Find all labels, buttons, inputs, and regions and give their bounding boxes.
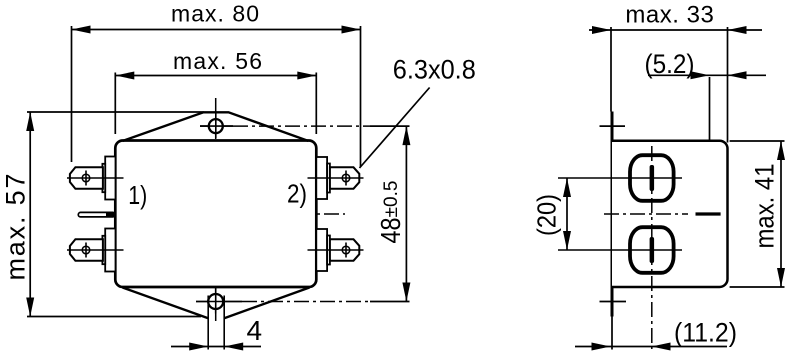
dimension 4 line xyxy=(171,346,261,348)
dimension (5.2) left arrow (outside) xyxy=(691,71,710,79)
dimension max. 56 left extension line xyxy=(114,73,116,135)
terminal 3 hole xyxy=(82,246,90,254)
dimension max. 80 right arrow xyxy=(342,26,361,34)
filter body outline (side view) xyxy=(612,141,728,287)
svg-text:6.3x0.8: 6.3x0.8 xyxy=(393,55,476,85)
dimension max. 33 left extension line xyxy=(610,27,612,112)
terminal 4 boss step xyxy=(327,236,330,265)
top mounting hole centerline (solid tick) xyxy=(200,125,233,127)
top mounting hole crosshair horizontal xyxy=(200,125,233,127)
top mounting hole xyxy=(209,119,223,133)
dimension max. 57 bottom extension line xyxy=(27,316,201,318)
bottom mounting hole xyxy=(208,294,223,309)
terminal 3 crosshair vertical xyxy=(85,243,87,258)
svg-text:(5.2): (5.2) xyxy=(645,49,695,79)
dimension (5.2) line xyxy=(648,74,766,76)
terminal 2 hole xyxy=(342,174,350,182)
middle pin (side view) xyxy=(696,212,721,215)
dimension max. 80 left extension line xyxy=(71,26,73,162)
dimension max. 33 left arrow (outside) xyxy=(592,26,611,34)
dimension max. 56 line xyxy=(115,75,316,77)
dimension max. 33 line xyxy=(589,29,762,31)
svg-text:2): 2) xyxy=(287,181,307,209)
left view vertical centerline xyxy=(215,98,217,322)
middle ground pin outline xyxy=(78,212,115,217)
dimension max. 57 top extension line xyxy=(27,111,204,113)
terminal 1 tab (upper left faston) xyxy=(70,167,103,188)
svg-text:max. 41: max. 41 xyxy=(750,164,780,249)
terminal 4 crosshair vertical xyxy=(345,243,347,258)
side view vertical centerline xyxy=(651,146,653,349)
(5.2) pin centerline extension xyxy=(709,77,711,212)
terminal 2 crosshair vertical xyxy=(345,171,347,186)
dimension max. 41 bottom arrow xyxy=(777,268,785,287)
terminal 2 tab (upper right faston) xyxy=(330,167,359,188)
top mounting hole crosshair vertical xyxy=(215,113,217,139)
svg-text:max. 56: max. 56 xyxy=(173,48,262,74)
side view horizontal centerline xyxy=(604,213,688,215)
dimension 48 +/-0.5 line xyxy=(405,126,407,301)
dimension (11.2) line xyxy=(575,346,727,348)
terminal 2 boss step xyxy=(327,164,330,193)
dimension max. 80 right extension line xyxy=(360,26,362,167)
terminal 3 tab (lower left faston) xyxy=(70,239,103,260)
dimension (20) bottom arrow xyxy=(563,231,571,250)
filter body outline (left view) xyxy=(115,141,316,288)
terminal 3 boss step xyxy=(102,236,105,264)
bottom mounting hole tick (side view) xyxy=(600,301,627,303)
terminal slot lower xyxy=(650,237,655,263)
dimension max. 41 bottom extension line xyxy=(730,286,785,288)
terminal 4 boss outer (lower right) xyxy=(316,229,327,271)
dimension 48 bottom extension (solid part) xyxy=(370,301,410,303)
bottom mounting hole crosshair vertical xyxy=(215,288,217,314)
svg-text:4: 4 xyxy=(247,315,263,346)
left view horizontal centerline xyxy=(116,213,345,215)
dimension (5.2) right arrow (outside) xyxy=(728,71,747,79)
terminal slot upper xyxy=(650,165,655,191)
dimension (11.2) left arrow (outside) xyxy=(592,343,611,351)
dimension max. 56 right arrow xyxy=(297,72,316,80)
dimension 4 left arrow (outside) xyxy=(189,343,208,351)
bottom mounting hole crosshair horizontal xyxy=(196,301,242,303)
dimension max. 56 left arrow xyxy=(115,72,134,80)
terminal 1 boss outer (upper left) xyxy=(105,157,115,200)
dimension max. 57 bottom arrow xyxy=(26,298,34,317)
dimension max. 57 line xyxy=(29,112,31,317)
svg-text:(20): (20) xyxy=(532,194,562,236)
top mounting hole centerline (dash-dot to 48 dim) xyxy=(233,125,370,127)
dimension max. 33 / (5.2) right extension line xyxy=(727,27,729,143)
terminal 2 boss outer (upper right) xyxy=(316,157,327,199)
svg-text:±0.5: ±0.5 xyxy=(381,181,402,218)
terminal 2 crosshair horizontal xyxy=(308,177,364,179)
dimension max. 41 top arrow xyxy=(777,141,785,160)
dimension max. 41 line xyxy=(780,141,782,287)
terminal 1 crosshair horizontal xyxy=(67,177,124,179)
terminal 4 hole xyxy=(342,246,350,254)
dimension (20) top arrow xyxy=(563,178,571,197)
dimension max. 56 right extension line xyxy=(315,73,317,135)
bottom slot right edge / extension xyxy=(223,296,225,350)
dimension max. 41 top extension line xyxy=(730,140,785,142)
terminal 1 crosshair vertical xyxy=(85,171,87,186)
svg-text:48: 48 xyxy=(375,218,406,244)
terminal 4 tab (lower right faston) xyxy=(330,239,359,260)
dimension 48 top extension (solid part) xyxy=(370,125,410,127)
dimension max. 80 left arrow xyxy=(72,26,91,34)
top mounting hole tick (side view) xyxy=(600,125,626,127)
dimension (11.2) right arrow (outside) xyxy=(652,343,671,351)
dimension 48 top arrow xyxy=(402,126,410,145)
dimension max. 80 line xyxy=(72,29,361,31)
bottom mounting hole centerline (solid tick) xyxy=(196,301,242,303)
dimension (11.2) left extension (bracket edge extended) xyxy=(611,317,613,350)
dimension (20) line xyxy=(566,178,568,250)
svg-text:max. 33: max. 33 xyxy=(625,1,714,28)
leader line 6.3x0.8 xyxy=(360,88,430,169)
middle ground pin solid root xyxy=(106,213,115,217)
dimension 48 bottom arrow xyxy=(402,283,410,302)
mounting bracket edge (side view) xyxy=(611,112,614,317)
terminal row line upper (20 extension / crosshair) xyxy=(558,177,682,179)
dimension max. 33 right arrow (outside) xyxy=(728,26,747,34)
bottom mounting flange left slope xyxy=(123,288,209,319)
bottom mounting hole centerline (dash-dot to 48 dim) xyxy=(242,301,370,303)
top mounting flange (trapezoid) xyxy=(123,112,309,141)
terminal 4 crosshair horizontal xyxy=(308,249,364,251)
bottom mounting flange right slope xyxy=(224,288,309,319)
dimension 4 right arrow (outside) xyxy=(224,343,243,351)
terminal 3 boss outer (lower left) xyxy=(105,229,115,272)
terminal row line lower (20 extension / crosshair) xyxy=(558,249,682,251)
dimension max. 57 top arrow xyxy=(26,112,34,131)
svg-text:max. 80: max. 80 xyxy=(171,1,259,27)
terminal 1 hole xyxy=(82,174,90,182)
terminal 3 crosshair horizontal xyxy=(67,249,124,251)
terminal 1 boss step xyxy=(102,164,105,192)
svg-text:1): 1) xyxy=(128,182,147,210)
bottom slot left edge / extension xyxy=(207,296,209,350)
svg-text:(11.2): (11.2) xyxy=(674,318,737,348)
terminal tab end view lower xyxy=(630,227,674,273)
terminal tab end view upper xyxy=(630,155,674,201)
